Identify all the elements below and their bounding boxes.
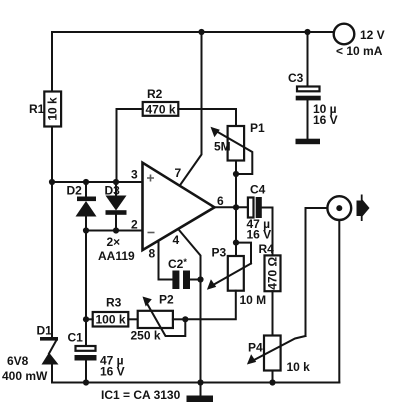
svg-text:250 k: 250 k: [131, 329, 161, 343]
wire pin8 to C2: [159, 242, 173, 280]
junction P4 ground: [269, 379, 275, 385]
wire R1/D1 left column: [51, 32, 53, 92]
capacitor C3: [296, 87, 321, 139]
wire P2 right junction: [173, 318, 185, 320]
wire pin2 net (D2/D3 to op-amp): [86, 230, 143, 232]
svg-text:470 Ω: 470 Ω: [266, 256, 280, 289]
svg-text:R2: R2: [147, 87, 163, 101]
svg-text:470 k: 470 k: [145, 103, 175, 117]
svg-text:D1: D1: [37, 324, 53, 338]
potentiometer P1: [211, 126, 253, 174]
wire pin7 to supply rail: [181, 32, 202, 185]
svg-text:P1: P1: [250, 121, 265, 135]
svg-text:10 k: 10 k: [287, 360, 311, 374]
svg-text:P3: P3: [212, 246, 227, 260]
potentiometer P4: [247, 336, 306, 383]
svg-text:7: 7: [175, 166, 182, 180]
output arrow symbol: [357, 195, 370, 222]
junction on supply rail (pin7): [198, 29, 204, 35]
resistor R2: [143, 102, 179, 117]
ground: [187, 383, 214, 403]
diode D2: [76, 182, 97, 231]
wire C1 column (pin2 node down to ground): [85, 231, 87, 347]
wire pin6 node down to P3: [235, 207, 237, 256]
svg-text:P2: P2: [159, 293, 174, 307]
svg-text:100 k: 100 k: [95, 313, 125, 327]
capacitor C4: [248, 197, 262, 218]
svg-text:16 V: 16 V: [100, 365, 125, 379]
svg-text:C1: C1: [68, 331, 84, 345]
svg-text:< 10 mA: < 10 mA: [336, 44, 383, 58]
wire R4 bottom to P4: [272, 291, 274, 335]
svg-text:5M: 5M: [214, 140, 231, 154]
wire C1 bottom to ground rail: [85, 361, 87, 383]
wire pin4 to ground rail: [179, 230, 201, 383]
junction P3 top: [233, 240, 239, 246]
junction P1 bottom: [233, 171, 239, 177]
svg-text:4: 4: [173, 233, 180, 247]
op-amp U1 CA3130: [143, 163, 215, 250]
svg-text:R4: R4: [259, 242, 275, 256]
wire R3 to P2: [128, 318, 137, 320]
wire P3 wiper loop: [236, 243, 251, 264]
wire bottom ground rail: [52, 382, 339, 384]
wire C3 branch from supply rail: [307, 32, 309, 87]
wire pin6 output: [215, 206, 249, 208]
wire output jack to ground rail: [338, 220, 340, 383]
junction on supply rail (C3): [304, 29, 310, 35]
svg-text:IC1 = CA 3130: IC1 = CA 3130: [101, 388, 181, 402]
supply terminal 12V: [334, 24, 355, 45]
svg-text:C3: C3: [288, 71, 304, 85]
capacitor C2: [172, 271, 190, 290]
junction pin6 node: [233, 204, 239, 210]
svg-text:2×: 2×: [107, 235, 121, 249]
wire top supply rail: [52, 31, 334, 33]
junction D3 top / R2: [113, 179, 119, 185]
junction node A (R1/D1/pin3): [49, 179, 55, 185]
zener diode D1: [40, 337, 59, 365]
wire C2 right to pin4 column: [190, 279, 201, 281]
capacitor C1: [75, 346, 97, 361]
junction P2 right: [182, 316, 188, 322]
wire R2 right to P1 top: [178, 109, 236, 126]
svg-text:R3: R3: [106, 296, 122, 310]
svg-text:AA119: AA119: [98, 249, 135, 263]
svg-text:C4: C4: [250, 183, 266, 197]
svg-text:2: 2: [131, 218, 138, 232]
ground bar under C3: [296, 139, 321, 145]
resistor R1: [44, 92, 61, 127]
wire R3 left: [86, 318, 93, 320]
svg-text:12 V: 12 V: [360, 28, 385, 42]
wire R2 left to pin3 net: [117, 109, 143, 182]
wire R1 bottom to node A: [51, 127, 53, 183]
svg-text:10 k: 10 k: [46, 97, 60, 121]
junction C1 ground: [83, 379, 89, 385]
svg-text:P4: P4: [248, 341, 263, 355]
potentiometer P3: [207, 256, 251, 291]
svg-text:D2: D2: [67, 184, 83, 198]
junction R3 left: [83, 316, 89, 322]
svg-text:3: 3: [131, 168, 138, 182]
resistor R4: [265, 255, 281, 291]
output jack: [327, 196, 351, 220]
wire pin3 net (node A to op-amp): [52, 181, 143, 183]
wire P4 wiper up to output jack: [306, 208, 328, 336]
svg-text:8: 8: [149, 247, 156, 261]
junction D2 top: [83, 179, 89, 185]
svg-text:10 M: 10 M: [240, 293, 267, 307]
junction C2 right / pin4: [197, 276, 203, 282]
svg-text:16 V: 16 V: [313, 113, 338, 127]
wire P1 junction down to pin6 node: [235, 174, 237, 207]
junction D2 bottom: [83, 227, 89, 233]
svg-text:6: 6: [217, 194, 224, 208]
svg-text:D3: D3: [105, 184, 121, 198]
wire C4 to R4: [262, 208, 273, 256]
diode D3: [106, 182, 127, 231]
wire P3 bottom to R3/P2 net: [185, 291, 236, 320]
wire node A down to D1: [51, 182, 53, 337]
svg-text:16 V: 16 V: [247, 228, 272, 242]
svg-text:R1: R1: [29, 102, 45, 116]
potentiometer P2: [138, 297, 186, 337]
svg-text:6V8: 6V8: [7, 354, 29, 368]
wire D1 bottom to ground rail: [51, 365, 53, 383]
resistor R3: [93, 312, 129, 327]
junction D3 bottom: [113, 227, 119, 233]
junction pin4 ground: [197, 379, 203, 385]
svg-text:400 mW: 400 mW: [2, 369, 48, 383]
